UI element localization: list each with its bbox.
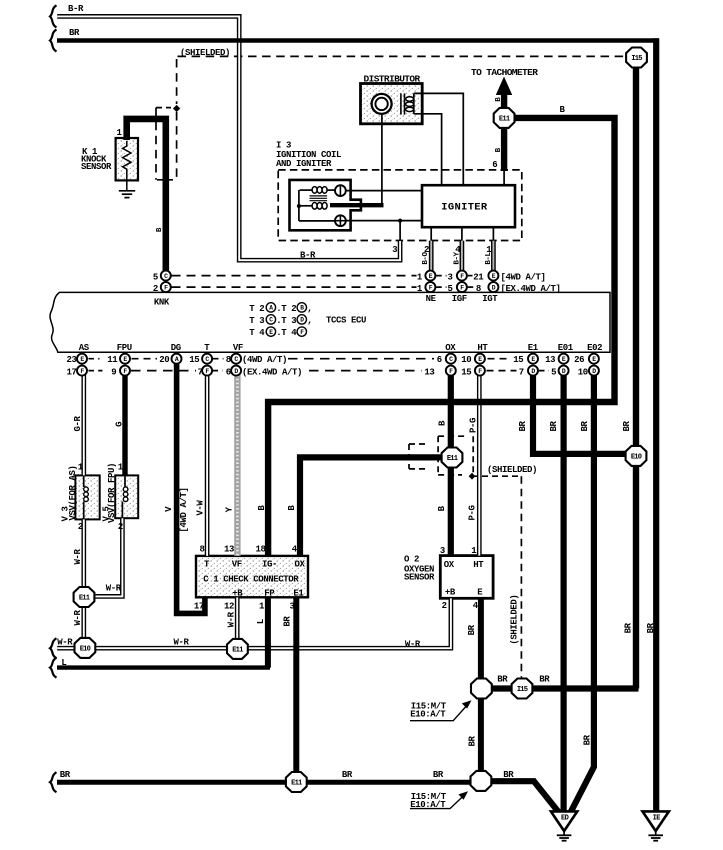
svg-text:T 3: T 3 — [249, 316, 264, 326]
svg-text:21: 21 — [473, 272, 484, 282]
svg-text:NE: NE — [426, 294, 437, 304]
svg-text:BR: BR — [468, 736, 478, 747]
svg-text:W-R: W-R — [226, 611, 236, 627]
svg-text:7: 7 — [198, 367, 203, 377]
svg-text:13: 13 — [424, 367, 434, 377]
svg-text:T 3: T 3 — [281, 316, 296, 326]
svg-text:18: 18 — [256, 545, 266, 555]
svg-text:G-R: G-R — [73, 416, 83, 432]
svg-text:2: 2 — [78, 522, 83, 532]
svg-text:5: 5 — [448, 284, 453, 294]
svg-text:E1: E1 — [528, 343, 539, 353]
svg-text:B-Y: B-Y — [454, 251, 462, 264]
svg-text:BR: BR — [624, 622, 634, 633]
svg-text:BR: BR — [518, 421, 528, 432]
svg-text:BR: BR — [283, 616, 293, 627]
svg-text:B-R: B-R — [68, 4, 84, 14]
svg-text:26: 26 — [574, 355, 584, 365]
svg-text:(EX.4WD A/T): (EX.4WD A/T) — [242, 367, 302, 377]
svg-text:L: L — [256, 619, 266, 624]
svg-text:B: B — [437, 505, 447, 511]
svg-text:E11: E11 — [447, 455, 458, 463]
svg-text:6: 6 — [492, 160, 497, 170]
svg-text:(SHIELDED): (SHIELDED) — [487, 465, 537, 475]
svg-text:VF: VF — [232, 559, 242, 569]
svg-text:11: 11 — [107, 355, 118, 365]
svg-text:Y: Y — [225, 506, 235, 512]
svg-text:9: 9 — [111, 367, 116, 377]
svg-text:IGT: IGT — [482, 294, 498, 304]
svg-text:BR: BR — [503, 770, 514, 780]
svg-text:3: 3 — [290, 601, 295, 611]
svg-text:E11: E11 — [79, 595, 90, 603]
svg-text:3: 3 — [392, 245, 397, 255]
svg-text:13: 13 — [545, 355, 555, 365]
svg-text:P-G: P-G — [468, 505, 478, 520]
svg-text:15: 15 — [513, 355, 523, 365]
svg-text:[EX.4WD A/T]: [EX.4WD A/T] — [501, 284, 561, 294]
svg-text:12: 12 — [224, 601, 234, 611]
svg-text:5: 5 — [153, 272, 158, 282]
svg-text:IGF: IGF — [452, 294, 467, 304]
svg-text:I15: I15 — [631, 55, 642, 63]
svg-text:E10:A/T: E10:A/T — [410, 710, 446, 720]
svg-text:+B: +B — [232, 588, 243, 598]
svg-text:BR: BR — [497, 674, 508, 684]
svg-text:+B: +B — [445, 588, 456, 598]
svg-text:E02: E02 — [587, 343, 602, 353]
svg-text:L: L — [61, 658, 66, 668]
svg-text:T 4: T 4 — [249, 328, 265, 338]
svg-text:15: 15 — [461, 367, 471, 377]
svg-text:E11: E11 — [291, 780, 302, 788]
svg-text:,: , — [307, 304, 312, 314]
svg-text:10: 10 — [461, 355, 471, 365]
svg-text:6: 6 — [437, 355, 442, 365]
svg-text:IE: IE — [653, 815, 661, 823]
svg-text:W-R: W-R — [57, 637, 73, 647]
svg-text:BR: BR — [433, 770, 444, 780]
svg-text:E10: E10 — [80, 646, 91, 654]
svg-text:BR: BR — [583, 734, 593, 745]
svg-text:FPU: FPU — [117, 343, 132, 353]
svg-text:TCCS ECU: TCCS ECU — [326, 316, 366, 326]
svg-text:B: B — [438, 420, 448, 426]
svg-text:E01: E01 — [558, 343, 574, 353]
svg-text:B-O: B-O — [422, 251, 430, 264]
svg-text:HT: HT — [473, 560, 484, 570]
svg-text:B-L: B-L — [485, 251, 493, 264]
svg-text:BR: BR — [539, 674, 550, 684]
svg-text:2: 2 — [442, 601, 447, 611]
svg-text:DISTRIBUTOR: DISTRIBUTOR — [364, 73, 421, 84]
svg-text:BR: BR — [549, 421, 559, 432]
svg-text:5: 5 — [551, 367, 556, 377]
svg-text:(SHIELDED): (SHIELDED) — [510, 595, 520, 645]
svg-text:HT: HT — [477, 343, 488, 353]
svg-text:1: 1 — [259, 601, 265, 611]
svg-text:C 1 CHECK CONNECTOR: C 1 CHECK CONNECTOR — [203, 574, 299, 584]
svg-text:2: 2 — [153, 284, 158, 294]
svg-text:(SHIELDED): (SHIELDED) — [180, 48, 230, 58]
svg-text:AND IGNITER: AND IGNITER — [276, 159, 332, 169]
svg-text:3: 3 — [448, 272, 453, 282]
svg-text:DG: DG — [171, 343, 181, 353]
svg-text:P-G: P-G — [468, 418, 478, 433]
svg-text:T 2: T 2 — [249, 304, 264, 314]
svg-text:E10: E10 — [631, 454, 642, 462]
svg-text:(4WD A/T): (4WD A/T) — [242, 355, 287, 365]
svg-text:OX: OX — [295, 559, 306, 569]
svg-text:20: 20 — [159, 355, 169, 365]
svg-text:T 4: T 4 — [281, 328, 297, 338]
svg-text:W-R: W-R — [106, 583, 122, 593]
svg-text:W-R: W-R — [73, 610, 83, 626]
svg-text:BR: BR — [622, 421, 632, 432]
svg-text:O 2: O 2 — [404, 554, 419, 564]
svg-text:10: 10 — [578, 367, 588, 377]
svg-text:8: 8 — [476, 284, 481, 294]
svg-text:W-R: W-R — [73, 549, 83, 565]
svg-text:W-R: W-R — [174, 637, 190, 647]
svg-text:VSV(FOR AS): VSV(FOR AS) — [68, 465, 78, 520]
svg-text:E11: E11 — [499, 116, 510, 124]
svg-text:SENSOR: SENSOR — [404, 573, 435, 583]
svg-text:17: 17 — [194, 601, 204, 611]
svg-text:BR: BR — [69, 28, 80, 38]
svg-text:,: , — [307, 316, 312, 326]
svg-text:I15: I15 — [517, 686, 528, 694]
svg-text:BR: BR — [60, 770, 71, 780]
svg-text:BR: BR — [342, 770, 353, 780]
svg-text:VSV(FOR FPU): VSV(FOR FPU) — [107, 463, 117, 523]
svg-text:15: 15 — [189, 355, 199, 365]
svg-text:2: 2 — [118, 522, 123, 532]
svg-text:3: 3 — [440, 546, 445, 556]
svg-text:W-R: W-R — [405, 640, 421, 650]
svg-text:KNK: KNK — [154, 297, 170, 307]
svg-text:B: B — [287, 505, 297, 511]
svg-text:8: 8 — [226, 355, 231, 365]
svg-text:IGNITER: IGNITER — [441, 202, 488, 214]
svg-text:[4WD A/T]: [4WD A/T] — [501, 272, 546, 282]
svg-text:7: 7 — [519, 367, 524, 377]
svg-text:[4WD A/T]: [4WD A/T] — [179, 487, 189, 532]
svg-text:1: 1 — [417, 272, 423, 282]
svg-text:17: 17 — [67, 367, 77, 377]
svg-text:B: B — [560, 105, 566, 115]
svg-text:E11: E11 — [232, 647, 243, 655]
svg-text:B-R: B-R — [300, 250, 316, 260]
svg-text:8: 8 — [200, 545, 205, 555]
svg-text:23: 23 — [67, 355, 77, 365]
svg-text:IG-: IG- — [262, 559, 277, 569]
svg-text:6: 6 — [226, 367, 231, 377]
svg-text:BR: BR — [580, 421, 590, 432]
svg-text:FP: FP — [264, 588, 275, 598]
svg-text:T 2: T 2 — [281, 304, 296, 314]
svg-text:E1: E1 — [293, 588, 304, 598]
svg-text:BR: BR — [646, 622, 656, 633]
svg-text:OX: OX — [444, 560, 455, 570]
svg-text:13: 13 — [224, 545, 234, 555]
svg-text:VF: VF — [233, 343, 243, 353]
svg-text:V-W: V-W — [196, 500, 206, 516]
svg-text:OX: OX — [445, 343, 456, 353]
svg-text:G: G — [115, 422, 125, 427]
svg-text:SENSOR: SENSOR — [81, 162, 112, 172]
svg-text:E10:A/T: E10:A/T — [410, 800, 446, 810]
svg-text:AS: AS — [79, 343, 90, 353]
svg-text:V: V — [164, 506, 174, 512]
svg-text:TO TACHOMETER: TO TACHOMETER — [471, 67, 538, 78]
svg-text:1: 1 — [117, 128, 123, 138]
svg-text:BR: BR — [467, 624, 477, 635]
svg-text:ED: ED — [561, 815, 569, 823]
